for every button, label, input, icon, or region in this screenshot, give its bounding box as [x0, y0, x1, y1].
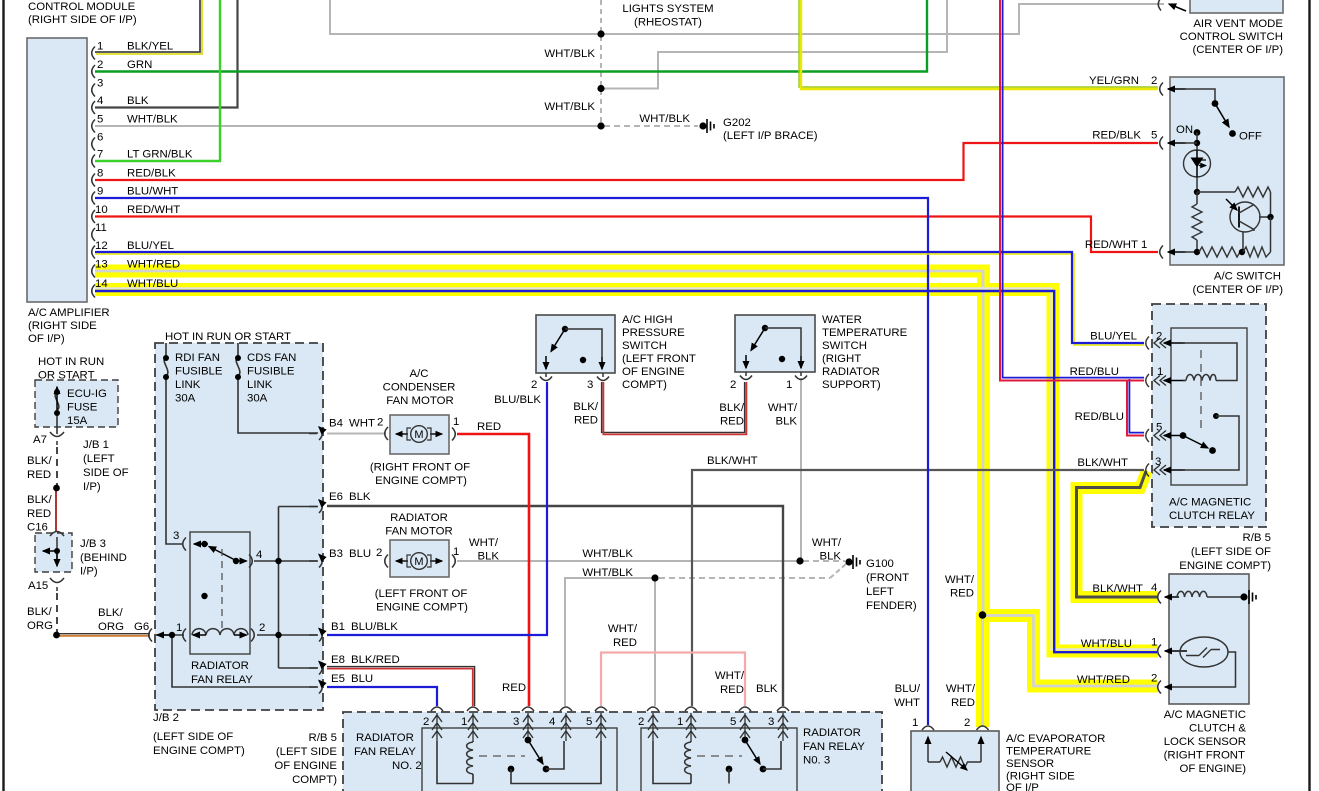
svg-text:10: 10 — [95, 204, 108, 216]
svg-text:A/C AMPLIFIER: A/C AMPLIFIER — [28, 307, 110, 319]
svg-text:WHT/BLK: WHT/BLK — [582, 548, 633, 560]
svg-text:AIR VENT MODE: AIR VENT MODE — [1193, 18, 1283, 30]
svg-text:FUSE: FUSE — [67, 402, 98, 414]
junction dot WHT/BLK x601 y126 — [597, 122, 604, 129]
svg-text:GRN: GRN — [127, 59, 152, 71]
ECU-IG fuse box — [35, 380, 118, 427]
svg-text:5: 5 — [586, 716, 592, 728]
wire WHT/BLK pin5 to G202 junction — [95, 125, 601, 127]
wire BLU/BLK B1 to high pressure switch pin2 — [327, 382, 547, 635]
svg-text:(RHEOSTAT): (RHEOSTAT) — [634, 17, 702, 29]
svg-text:WHT/: WHT/ — [608, 623, 638, 635]
svg-text:LEFT: LEFT — [866, 586, 894, 598]
svg-text:CDS FAN: CDS FAN — [247, 352, 296, 364]
evaporator sensor connector arcs — [922, 726, 989, 730]
svg-text:YEL/GRN: YEL/GRN — [1089, 75, 1139, 87]
svg-text:BLK: BLK — [756, 683, 778, 695]
junction dot BLK/ORG — [53, 632, 60, 639]
svg-text:A/C HIGH: A/C HIGH — [622, 314, 673, 326]
svg-text:(CENTER OF I/P): (CENTER OF I/P) — [1193, 284, 1284, 296]
relay no3 pin connector arcs — [647, 707, 789, 711]
svg-text:FAN RELAY: FAN RELAY — [191, 674, 253, 686]
connector arc B4 — [309, 427, 322, 440]
svg-text:BLK/: BLK/ — [27, 494, 53, 506]
svg-text:(CENTER OF I/P): (CENTER OF I/P) — [1193, 44, 1284, 56]
svg-text:2: 2 — [531, 379, 537, 391]
svg-text:BLK: BLK — [127, 95, 149, 107]
J/B2 internal CDS fan fusible link conductor — [238, 343, 318, 433]
connector arc B1 — [309, 629, 322, 642]
svg-text:WHT/BLK: WHT/BLK — [582, 567, 633, 579]
svg-text:RED/WHT: RED/WHT — [1085, 239, 1138, 251]
A/C high pressure switch internals — [562, 326, 568, 332]
water temp switch pin stems and arcs — [740, 372, 807, 380]
svg-text:5: 5 — [97, 114, 103, 126]
wire WHT/BLK dashed from junction toward G100 — [659, 577, 830, 579]
air vent switch connector — [1158, 0, 1161, 11]
svg-text:M: M — [414, 556, 423, 568]
svg-text:1: 1 — [1157, 366, 1163, 378]
magnetic clutch relay pin1 connector — [1146, 374, 1185, 387]
wire BLK/WHT to magnetic clutch relay pin3 — [692, 470, 1144, 706]
svg-text:R/B 5: R/B 5 — [309, 732, 338, 744]
air vent mode control switch box — [1190, 0, 1283, 13]
connector arc relay pin1 — [183, 629, 186, 642]
wire RED/BLK pin8 to A/C switch pin5 — [95, 143, 1158, 180]
svg-text:ECU-IG: ECU-IG — [67, 388, 107, 400]
svg-text:WHT/BLU: WHT/BLU — [127, 278, 178, 290]
RDI fusible link element — [164, 357, 168, 376]
svg-text:NO. 2: NO. 2 — [392, 760, 422, 772]
relay no2 internals coil — [437, 741, 473, 784]
evaporator sensor internals — [927, 737, 929, 762]
A/C condenser fan motor box — [390, 415, 449, 454]
svg-text:CLUTCH RELAY: CLUTCH RELAY — [1169, 510, 1255, 522]
wire BLK/YEL pin1 dark part — [95, 0, 200, 52]
svg-text:WHT/BLU: WHT/BLU — [1081, 638, 1132, 650]
svg-text:M: M — [414, 429, 423, 441]
svg-text:BLU/YEL: BLU/YEL — [1090, 331, 1137, 343]
svg-text:1: 1 — [1151, 637, 1157, 649]
svg-text:2: 2 — [1156, 331, 1162, 343]
ground G202 — [699, 122, 706, 129]
svg-text:OF ENGINE: OF ENGINE — [622, 366, 685, 378]
svg-text:RADIATOR: RADIATOR — [390, 512, 448, 524]
relay no2 alternate contact to pin5 — [508, 766, 515, 773]
svg-text:C16: C16 — [27, 522, 48, 534]
A/C switch bottom resistors — [1184, 251, 1199, 253]
yellow highlight band pin14 WHT/BLU — [95, 290, 1158, 652]
svg-text:OR START: OR START — [38, 370, 95, 382]
dashed wire A15 to junction — [56, 593, 58, 632]
svg-text:5: 5 — [730, 716, 736, 728]
svg-text:WHT/: WHT/ — [946, 683, 976, 695]
svg-text:A/C: A/C — [410, 368, 429, 380]
svg-text:G100: G100 — [866, 558, 894, 570]
svg-text:G202: G202 — [723, 117, 751, 129]
connector arc G6 — [149, 629, 152, 642]
radiator fan relay no.3 box — [641, 728, 797, 791]
svg-text:5: 5 — [1151, 130, 1157, 142]
svg-text:30A: 30A — [175, 393, 196, 405]
svg-text:2: 2 — [423, 716, 429, 728]
svg-text:WHT/BLK: WHT/BLK — [544, 48, 595, 60]
svg-text:RED/BLK: RED/BLK — [127, 168, 176, 180]
wire WHT/RED relay no2 pin5 to relay no3 pin5 — [601, 653, 745, 707]
svg-text:WHT: WHT — [349, 418, 375, 430]
svg-text:FAN MOTOR: FAN MOTOR — [386, 395, 454, 407]
svg-text:BLK/: BLK/ — [27, 606, 53, 618]
svg-text:13: 13 — [95, 259, 108, 271]
svg-text:RADIATOR: RADIATOR — [191, 660, 249, 672]
core WHT/RED right branch to lock sensor pin2 — [983, 616, 1157, 687]
A/C magnetic clutch and lock sensor box — [1169, 574, 1249, 704]
svg-text:11: 11 — [95, 222, 107, 234]
wire BLK/ORG to G6 — [57, 635, 150, 637]
svg-text:1: 1 — [1141, 239, 1147, 251]
relay no2 pin chevrons — [432, 715, 606, 738]
relay no3 pin stubs — [653, 713, 783, 741]
svg-text:(RIGHT: (RIGHT — [822, 353, 861, 365]
A/C switch LED to resistor node — [1196, 177, 1198, 192]
radiator fan motor box — [390, 540, 449, 577]
svg-text:RED/BLK: RED/BLK — [1092, 130, 1141, 142]
wire BLK/RED A7 to C16 — [55, 489, 57, 531]
svg-text:WATER: WATER — [822, 314, 862, 326]
wire WHT/BLK relay no2 pin4 to relay no3 pin2 — [565, 578, 655, 706]
svg-text:RED: RED — [720, 416, 744, 428]
svg-text:2: 2 — [259, 622, 265, 634]
radiator fan relay pin3 arrow — [194, 543, 208, 545]
yellow highlight band BLK/WHT to lock sensor pin 4 — [1077, 471, 1159, 597]
wire WHT B4 to condenser fan motor — [327, 433, 386, 435]
ECU-IG fuse element — [55, 392, 59, 434]
svg-text:COMPT): COMPT) — [292, 774, 337, 786]
svg-text:BLU: BLU — [351, 673, 373, 685]
svg-text:1: 1 — [912, 717, 918, 729]
wire E8 BLK/RED to relay no2 pin1 — [327, 669, 473, 706]
connector arc relay pin3 — [183, 538, 186, 551]
svg-text:ORG: ORG — [27, 620, 53, 632]
svg-text:WHT/: WHT/ — [768, 402, 798, 414]
svg-text:I/P): I/P) — [83, 481, 101, 493]
left page border — [2, 0, 4, 791]
svg-text:WHT/RED: WHT/RED — [127, 259, 180, 271]
lock sensor clutch coil — [1177, 591, 1207, 597]
svg-text:SENSOR: SENSOR — [1006, 758, 1054, 770]
svg-text:E6: E6 — [329, 491, 343, 503]
yellow highlight band WHT/RED to lock sensor pin 2 — [977, 616, 1158, 687]
svg-text:ORG: ORG — [98, 621, 124, 633]
wire LT GRN/BLK pin7 — [95, 0, 220, 161]
svg-text:1: 1 — [677, 716, 683, 728]
svg-text:OF ENGINE: OF ENGINE — [274, 760, 337, 772]
svg-text:BLK/WHT: BLK/WHT — [1077, 457, 1128, 469]
junction dot pin2-E8 vertical — [275, 632, 281, 638]
wire RED/BLU blue part — [1003, 0, 1144, 433]
svg-text:(BEHIND: (BEHIND — [80, 552, 127, 564]
svg-text:B3: B3 — [329, 548, 343, 560]
relay no2 pin stubs — [437, 713, 601, 741]
svg-text:WHT/BLK: WHT/BLK — [544, 101, 595, 113]
connector arc E5 — [309, 681, 322, 694]
ground G100 — [845, 558, 852, 565]
junction dot BLK/RED — [53, 485, 60, 492]
J/B2 internal conductor relay pin4 to B3 — [254, 560, 318, 562]
svg-text:(RIGHT SIDE: (RIGHT SIDE — [1006, 771, 1075, 783]
wire RED condenser fan motor to relay no2 pin3 — [457, 434, 529, 706]
svg-text:3: 3 — [587, 379, 593, 391]
relay no2 armature link dashed — [479, 755, 525, 757]
svg-text:2: 2 — [376, 547, 382, 559]
svg-text:(RIGHT SIDE OF I/P): (RIGHT SIDE OF I/P) — [28, 14, 137, 26]
svg-text:LT GRN/BLK: LT GRN/BLK — [127, 149, 193, 161]
J/B2 internal conductor pin1 to E5 — [172, 635, 318, 687]
svg-text:BLK: BLK — [349, 491, 371, 503]
svg-text:E5: E5 — [331, 673, 345, 685]
svg-text:J/B 2: J/B 2 — [153, 712, 179, 724]
svg-text:(FRONT: (FRONT — [866, 572, 909, 584]
svg-text:ENGINE COMPT): ENGINE COMPT) — [375, 475, 467, 487]
svg-text:A7: A7 — [33, 434, 47, 446]
radiator fan relay pin2 arrow — [234, 634, 247, 636]
svg-text:1: 1 — [176, 622, 182, 634]
core BLK/WHT highlighted to lock sensor pin4 — [1077, 471, 1158, 597]
svg-text:2: 2 — [730, 379, 736, 391]
lock sensor case ground — [1249, 590, 1256, 604]
junction dot WHT/BLK x601 y34 — [597, 30, 604, 37]
svg-text:FAN RELAY: FAN RELAY — [354, 746, 416, 758]
svg-text:BLK/WHT: BLK/WHT — [707, 455, 758, 467]
svg-text:LIGHTS SYSTEM: LIGHTS SYSTEM — [622, 3, 713, 15]
svg-text:BLK/RED: BLK/RED — [351, 654, 400, 666]
svg-text:FENDER): FENDER) — [866, 600, 917, 612]
svg-text:RED: RED — [613, 637, 637, 649]
J/B3 left arrow — [43, 550, 57, 552]
svg-text:SUPPORT): SUPPORT) — [822, 379, 881, 391]
yellow highlight band pin13 WHT/RED — [95, 271, 984, 615]
lock sensor pin2 loop — [1165, 652, 1236, 687]
svg-text:FUSIBLE: FUSIBLE — [247, 366, 295, 378]
svg-text:LINK: LINK — [175, 379, 201, 391]
svg-text:RED/WHT: RED/WHT — [127, 204, 180, 216]
svg-text:A/C SWITCH: A/C SWITCH — [1214, 271, 1281, 283]
magnetic clutch relay pin3 connector — [1146, 464, 1185, 477]
J/B3 internal conductor — [56, 537, 58, 563]
A/C switch transistor — [1230, 202, 1260, 232]
junction dot G6-relay — [169, 632, 175, 638]
wire BLU/YEL pin12 to magnetic clutch relay pin2 — [95, 252, 1144, 343]
relay no3 internals coil — [653, 741, 691, 784]
J/B2 internal vertical conductor to E6 and E8 — [279, 507, 319, 669]
svg-text:BLK/: BLK/ — [573, 401, 599, 413]
connector arc relay pin2 — [251, 629, 254, 642]
condenser fan motor internals — [396, 433, 408, 435]
svg-text:OF ENGINE): OF ENGINE) — [1180, 763, 1247, 775]
wire WHT/BLK relay no3 pin2 vertical — [654, 580, 656, 706]
wire BLU/YEL yellow stripe — [95, 254, 1144, 345]
svg-text:3: 3 — [1155, 456, 1161, 468]
svg-text:BLK: BLK — [819, 551, 841, 563]
svg-text:RADIATOR: RADIATOR — [356, 732, 414, 744]
svg-text:ENGINE COMPT): ENGINE COMPT) — [153, 745, 245, 757]
svg-text:RADIATOR: RADIATOR — [803, 727, 861, 739]
svg-text:1: 1 — [97, 41, 103, 53]
water temperature switch box — [735, 315, 815, 372]
wire WHT/BLK dashed to G202 ground — [604, 125, 698, 127]
svg-text:RED: RED — [27, 508, 51, 520]
svg-text:BLU/: BLU/ — [895, 683, 921, 695]
amplifier connector arcs pins 1-14 — [92, 47, 95, 298]
svg-text:ENGINE COMPT): ENGINE COMPT) — [1179, 560, 1271, 572]
magnetic clutch relay switch — [1180, 432, 1187, 439]
svg-text:(LEFT SIDE OF: (LEFT SIDE OF — [1191, 546, 1271, 558]
svg-text:WHT/: WHT/ — [945, 574, 975, 586]
core WHT/BLU white part — [95, 288, 1157, 649]
core WHT/BLU blue part — [95, 291, 1157, 652]
svg-text:G6: G6 — [134, 621, 149, 633]
A/C switch pin2 connector — [1160, 83, 1163, 96]
svg-text:2: 2 — [97, 59, 103, 71]
svg-text:CONDENSER: CONDENSER — [383, 382, 456, 394]
svg-text:BLU/BLK: BLU/BLK — [351, 621, 398, 633]
svg-text:ON: ON — [1176, 124, 1193, 136]
svg-text:4: 4 — [1151, 582, 1157, 594]
wire YEL/GRN to A/C switch pin2 — [801, 0, 1158, 89]
lock sensor pin4 connector — [1158, 591, 1161, 604]
svg-text:2: 2 — [1151, 75, 1157, 87]
svg-text:R/B 5: R/B 5 — [1243, 532, 1272, 544]
magnetic clutch relay pin2 connector — [1146, 337, 1185, 350]
high pressure switch pin stems and arcs — [540, 373, 609, 381]
svg-text:RED: RED — [27, 469, 51, 481]
A/C amplifier connector box — [27, 38, 87, 302]
svg-text:BLK/YEL: BLK/YEL — [127, 41, 173, 53]
svg-text:1: 1 — [461, 716, 467, 728]
A/C switch on-off contacts — [1184, 89, 1215, 101]
svg-text:I/P): I/P) — [80, 566, 98, 578]
wire BLU/WHT pin9 to evaporator sensor pin1 — [95, 198, 928, 725]
svg-text:LINK: LINK — [247, 379, 273, 391]
wire RED/WHT pin10 to A/C switch pin1 — [95, 217, 1158, 253]
svg-text:WHT/BLK: WHT/BLK — [127, 114, 178, 126]
CDS fusible link element — [236, 357, 240, 376]
svg-text:BLK/: BLK/ — [98, 607, 124, 619]
svg-text:SWITCH: SWITCH — [822, 340, 867, 352]
junction dot whtblk relay3 pin2 — [651, 574, 658, 581]
svg-text:RED: RED — [502, 682, 526, 694]
magnetic clutch relay armature link — [1200, 350, 1202, 430]
svg-text:7: 7 — [97, 149, 103, 161]
svg-text:LOCK SENSOR: LOCK SENSOR — [1164, 736, 1246, 748]
wire WHT/BLK dashed vertical bus — [600, 0, 602, 124]
svg-text:3: 3 — [768, 716, 774, 728]
svg-text:30A: 30A — [247, 393, 268, 405]
wire BLK/ORG dark edge — [57, 633, 150, 635]
svg-text:J/B 1: J/B 1 — [83, 439, 109, 451]
svg-text:BLK/WHT: BLK/WHT — [1092, 583, 1143, 595]
A/C switch LED — [1184, 150, 1211, 177]
wire BLK/RED high pressure pin3 to water temp pin2 red part — [603, 382, 746, 434]
svg-text:(RIGHT SIDE: (RIGHT SIDE — [28, 320, 97, 332]
svg-text:COMPT): COMPT) — [622, 379, 667, 391]
svg-text:E8: E8 — [331, 654, 345, 666]
A/C magnetic clutch relay box — [1171, 328, 1247, 485]
svg-text:N0. 3: N0. 3 — [803, 755, 830, 767]
wire E8 BLK/RED dark edge — [327, 667, 475, 706]
svg-text:3: 3 — [513, 716, 519, 728]
svg-text:A/C EVAPORATOR: A/C EVAPORATOR — [1006, 733, 1105, 745]
svg-text:1: 1 — [786, 379, 792, 391]
wire RED/BLU to magnetic clutch relay pin1 and pin5 — [1000, 0, 1144, 436]
A/C switch pin5 connector — [1160, 137, 1163, 150]
svg-text:TEMPERATURE: TEMPERATURE — [1006, 746, 1092, 758]
junction dot WHT/RED split — [979, 611, 987, 619]
svg-text:RED: RED — [574, 415, 598, 427]
radiator fan motor internals — [396, 560, 408, 562]
A/C evaporator temperature sensor box — [911, 731, 999, 791]
svg-text:WHT: WHT — [894, 697, 920, 709]
wire WHT/BLK dashed to G100 ground — [803, 560, 845, 562]
A/C switch box — [1170, 77, 1284, 265]
svg-text:3: 3 — [173, 530, 179, 542]
dashed wire A7 to junction — [56, 447, 58, 486]
connector A7 — [50, 432, 64, 445]
core WHT/RED down to evaporator pin2 — [981, 616, 984, 726]
relay no3 armature link dashed — [697, 755, 742, 757]
J/B2 internal conductor relay pin2 to B1 — [257, 634, 318, 636]
svg-text:BLK: BLK — [477, 551, 499, 563]
svg-text:RED: RED — [950, 588, 974, 600]
svg-text:(LEFT SIDE OF: (LEFT SIDE OF — [153, 731, 233, 743]
A/C high pressure switch box — [536, 315, 615, 373]
svg-text:OFF: OFF — [1239, 131, 1262, 143]
svg-text:OF I/P: OF I/P — [1006, 782, 1039, 791]
svg-text:9: 9 — [97, 186, 103, 198]
svg-text:2: 2 — [377, 417, 383, 429]
svg-text:2: 2 — [1151, 673, 1157, 685]
svg-text:BLK/: BLK/ — [27, 455, 53, 467]
radiator fan relay armature — [209, 547, 235, 561]
condenser fan motor connector arcs — [385, 427, 456, 441]
wire WHT/BLK second branch from top — [602, 0, 947, 89]
svg-text:12: 12 — [95, 240, 108, 252]
J/B2 internal conductor G6 to relay pin1 — [156, 634, 184, 636]
radiator fan relay coil — [192, 629, 248, 635]
svg-text:15A: 15A — [67, 415, 88, 427]
svg-text:2: 2 — [964, 717, 970, 729]
svg-text:OF I/P): OF I/P) — [28, 333, 65, 345]
lock sensor pin1 connector — [1158, 645, 1161, 658]
J/B 2 junction block box — [155, 343, 323, 710]
svg-text:3: 3 — [97, 78, 103, 90]
connector arc relay pin4 — [249, 555, 252, 568]
A/C switch pin1 connector — [1160, 246, 1163, 259]
svg-text:BLU/YEL: BLU/YEL — [127, 240, 174, 252]
svg-text:SWITCH: SWITCH — [622, 340, 667, 352]
radiator fan relay armature link dashed — [221, 549, 223, 630]
svg-text:RED: RED — [720, 684, 744, 696]
svg-text:BLU/WHT: BLU/WHT — [127, 186, 178, 198]
svg-text:BLK/: BLK/ — [719, 402, 745, 414]
radiator fan motor connector arcs — [385, 555, 456, 568]
connector arc E6 — [309, 500, 322, 513]
svg-text:WHT/: WHT/ — [812, 537, 842, 549]
svg-text:4: 4 — [549, 716, 555, 728]
svg-text:PRESSURE: PRESSURE — [622, 327, 685, 339]
svg-text:5: 5 — [1156, 422, 1162, 434]
wire E6 BLK to relay no3 pin3 — [327, 506, 783, 706]
